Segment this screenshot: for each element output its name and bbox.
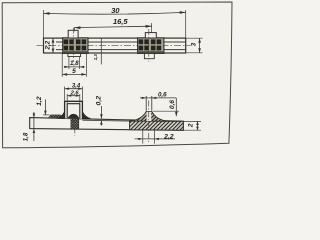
left block tab (bottom) [68, 54, 81, 57]
dimension 3: dim line [199, 38, 201, 53]
dimension 3,4: dim line [65, 88, 83, 90]
dimension 30: right extension line [185, 10, 187, 38]
dimension 16,5: dim line [74, 26, 151, 27]
dimension 1,2: extension line [43, 114, 50, 116]
svg-text:3,4: 3,4 [72, 84, 81, 90]
weld boundary line [100, 38, 102, 64]
dimension 0,6 width: extension lines [145, 96, 147, 111]
dimension 30: left arrow [44, 12, 50, 15]
solder fillet left of clip [57, 111, 65, 118]
svg-text:16,5: 16,5 [113, 17, 128, 26]
lower right axis [148, 101, 150, 144]
dimension 30: left extension line [43, 10, 45, 38]
left block tab (top) [68, 30, 78, 38]
svg-text:1,2: 1,2 [36, 96, 43, 106]
svg-text:1,3: 1,3 [93, 54, 98, 61]
svg-text:0,6: 0,6 [158, 91, 167, 98]
dimension 1,8 lower: dim line and arrows [33, 112, 35, 141]
left block vertical axis [72, 28, 74, 63]
dimension 1,8 top view: dim line [64, 66, 85, 68]
dimension 3,4 arrows [65, 88, 70, 90]
svg-text:0,2: 0,2 [95, 96, 102, 106]
dimension 5 arrows [62, 73, 67, 76]
svg-text:1,8: 1,8 [22, 132, 29, 141]
dimension 30: right arrow [180, 11, 186, 14]
svg-text:30: 30 [111, 6, 120, 15]
dimension 0,6 width: dim line [140, 97, 176, 99]
dimension 2,2 arrow down [52, 49, 55, 53]
bar inner line lower [56, 49, 186, 51]
svg-text:3: 3 [191, 42, 198, 46]
right block vertical axis [148, 29, 150, 62]
solder fillet right of clip [82, 111, 90, 118]
dimension 1,2: dim line and arrow [44, 100, 46, 115]
clip axis below [74, 129, 76, 135]
rivet shank crosshatched [71, 119, 79, 129]
bar inner line upper [56, 41, 186, 43]
right block tab (top) [145, 33, 156, 38]
right block contact squares [139, 39, 162, 50]
right block body [138, 38, 164, 54]
dimension 3,4: extension lines [64, 87, 66, 101]
solder mound inside clip [68, 114, 80, 119]
dimension 0,6 height: leader vertical and arrow [175, 98, 177, 116]
dimension 2: extension lines [183, 120, 201, 122]
dimension 2,2 left end: dim line [52, 38, 54, 52]
drawing frame border [2, 2, 232, 148]
dimension 16,5: right extension line [151, 23, 153, 33]
dimension 2,6: dim line [67, 95, 80, 97]
dimension 5: dim line [62, 73, 86, 75]
dimension 2 arrows [196, 121, 199, 125]
dimension 2,2 lower: dim line [135, 138, 175, 140]
dimension 3 arrows [198, 38, 201, 43]
right block tab (bottom) [144, 54, 154, 59]
right block bottom dark strip [138, 51, 164, 53]
dimension 0,6 width arrows (outside) [142, 97, 147, 99]
paper background [0, 0, 237, 155]
dimension 2,2 lower arrows (outside) [138, 138, 143, 140]
svg-text:2,2: 2,2 [163, 134, 174, 141]
dimension 5: extension lines [61, 54, 63, 77]
lower bar outline [30, 118, 184, 131]
dimension 2,2 arrow up [52, 38, 55, 42]
dimension 0,2: dim line and arrows [100, 106, 102, 119]
dimension 2,2 lower: extension lines [142, 130, 144, 144]
dimension 16,5: right arrow [146, 25, 152, 28]
left block body [63, 38, 88, 54]
top view bar outline [44, 38, 186, 53]
dimension 2,6 arrows [67, 95, 71, 97]
svg-text:2,2: 2,2 [44, 40, 51, 50]
dimension 16,5: left arrow [74, 26, 80, 29]
svg-text:2,6: 2,6 [70, 90, 80, 96]
dimension 16,5: left extension segment to tab [73, 28, 75, 32]
dimension 2: dim line [197, 121, 199, 130]
svg-text:5: 5 [72, 68, 76, 75]
dimension 0,6 height: extension tick [153, 110, 179, 112]
strip lower edge line [82, 119, 129, 122]
hatched section band [130, 121, 184, 130]
dimension 1,8 arrows [64, 66, 69, 68]
dimension 3: extension lines [186, 37, 203, 39]
solder pad left [48, 115, 62, 118]
left block contact squares [64, 39, 87, 50]
bar horizontal centerline [37, 44, 191, 46]
contact bump (volcano) [131, 111, 168, 121]
dimension 30: dim line [44, 12, 186, 14]
svg-text:1,8: 1,8 [70, 60, 79, 67]
contact bump white center [147, 112, 152, 121]
svg-text:2: 2 [187, 123, 194, 128]
clip outer [65, 101, 83, 119]
dimension 2,6: extension lines [66, 94, 68, 103]
left block bottom dark strip [63, 51, 88, 53]
dimension 1,8 top view: extension lines [68, 57, 70, 70]
clip inner [67, 104, 80, 119]
svg-text:0,6: 0,6 [169, 100, 176, 109]
